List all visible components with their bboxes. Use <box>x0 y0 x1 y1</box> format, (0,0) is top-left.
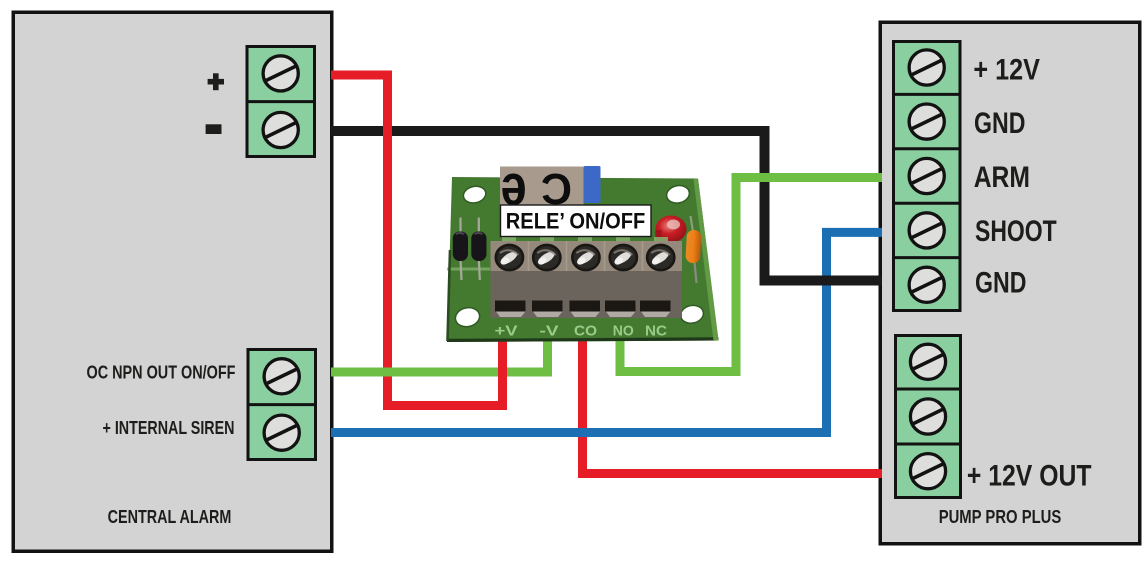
svg-text:RELE’ ON/OFF: RELE’ ON/OFF <box>506 208 646 233</box>
wire red plus to +V <box>331 75 503 406</box>
wire blue internal siren to SHOOT <box>331 232 882 432</box>
wire entry holes <box>495 301 671 318</box>
screw terminal aux1 <box>910 344 945 379</box>
screw terminal OC NPN <box>264 359 299 394</box>
solder pads row <box>502 237 668 241</box>
screw CO <box>572 245 599 270</box>
wire green OC NPN to -V <box>331 336 548 372</box>
svg-text:CO: CO <box>574 323 597 340</box>
diode D1 leads <box>461 218 462 281</box>
screw terminal +12V OUT <box>910 454 945 489</box>
svg-text:+ 12V: + 12V <box>973 53 1040 86</box>
relay label RELE' ON/OFF <box>501 205 652 237</box>
svg-text:-V: -V <box>540 323 559 340</box>
terminal strip upper screw row <box>491 241 683 271</box>
label - <box>206 124 222 134</box>
terminal block TB4 (3 way) on pump pro plus <box>896 336 961 498</box>
CENTRAL ALARM enclosure box <box>13 12 332 551</box>
label + <box>208 73 224 90</box>
screw terminal GND <box>909 104 944 139</box>
svg-text:+ 12V OUT: + 12V OUT <box>967 460 1092 493</box>
diode D2 leads <box>479 218 480 281</box>
mounting hole bottom-right <box>679 303 705 325</box>
screw terminal - <box>263 112 298 147</box>
svg-text:PUMP PRO PLUS: PUMP PRO PLUS <box>939 507 1062 527</box>
screw terminal GND2 <box>909 267 944 302</box>
mounting hole top-left <box>462 184 488 205</box>
mounting hole bottom-left <box>454 305 482 328</box>
terminal block TB1 (+ / -) on central alarm <box>247 47 315 157</box>
terminal block TB3 (5 way) on pump pro plus <box>894 42 961 311</box>
board left edge shadow <box>448 250 451 341</box>
relay body <box>500 153 584 218</box>
svg-text:GND: GND <box>974 107 1025 140</box>
capacitor C1 orange with leads <box>685 216 701 283</box>
svg-text:NO: NO <box>613 323 634 340</box>
blue capacitor on relay board <box>584 166 601 203</box>
screw +V <box>496 245 523 270</box>
svg-text:ARM: ARM <box>974 161 1030 194</box>
svg-text:CENTRAL ALARM: CENTRAL ALARM <box>108 507 232 527</box>
screw terminal siren <box>264 415 299 450</box>
LED <box>655 216 686 243</box>
svg-text:SHOOT: SHOOT <box>975 215 1057 248</box>
wire red +V leg over green <box>498 336 507 410</box>
screw terminal SHOOT <box>909 213 944 248</box>
svg-text:OC NPN OUT ON/OFF: OC NPN OUT ON/OFF <box>87 363 236 383</box>
svg-text:GND: GND <box>975 267 1026 300</box>
screw terminal aux2 <box>910 399 945 434</box>
terminal strip body <box>491 271 683 318</box>
terminal block TB2 (OC NPN / SIREN) on central alarm <box>248 350 316 460</box>
svg-text:+ INTERNAL SIREN: + INTERNAL SIREN <box>103 418 235 438</box>
mounting hole top-right <box>665 183 691 205</box>
screw terminal ARM <box>909 158 944 193</box>
svg-text:+V: +V <box>495 323 518 340</box>
diode D1 <box>453 232 468 262</box>
relay module PCB board <box>447 177 719 342</box>
screw terminal +12V <box>909 50 944 85</box>
screw terminal + <box>263 56 298 91</box>
screw NO <box>610 245 637 270</box>
svg-text:NC: NC <box>645 323 667 340</box>
screw -V <box>533 245 560 270</box>
wire green NO to ARM <box>620 178 882 372</box>
wire black minus to GND <box>331 131 882 281</box>
diode D2 <box>471 232 486 262</box>
PUMP PRO PLUS enclosure box <box>880 22 1140 544</box>
screw NC <box>647 245 674 270</box>
wire red CO to +12V OUT <box>583 336 883 474</box>
silkscreen line <box>447 268 490 271</box>
